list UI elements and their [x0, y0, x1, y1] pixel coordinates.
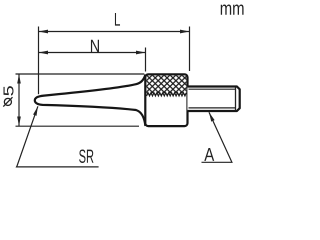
extension line N (knurl start)	[145, 48, 147, 72]
svg-text:A: A	[204, 144, 214, 165]
threaded stud outline	[187, 87, 239, 112]
leader A	[202, 112, 232, 162]
knurled body cylinder	[145, 74, 187, 126]
extension line dia top	[16, 73, 145, 75]
svg-text:5: 5	[0, 85, 17, 96]
svg-text:N: N	[90, 36, 100, 56]
knurl bottom zigzag	[147, 93, 187, 96]
svg-text:L: L	[114, 9, 120, 30]
leader SR	[17, 106, 99, 167]
knurl hatch	[140, 70, 192, 100]
thread root line top	[189, 88, 236, 90]
extension line dia bottom	[16, 125, 140, 127]
dimension N line	[39, 52, 146, 54]
label dia5	[0, 85, 17, 96]
dimension L line	[39, 31, 190, 33]
contact tip cone with spherical end	[35, 75, 146, 126]
thread root line bottom	[189, 107, 236, 109]
extension line right (body end)	[189, 27, 191, 72]
thread chamfer line	[235, 87, 237, 110]
dimension dia5 line	[18, 74, 20, 126]
extension line left (tip)	[38, 27, 40, 95]
svg-text:mm: mm	[220, 0, 245, 20]
svg-text:SR: SR	[79, 147, 94, 168]
